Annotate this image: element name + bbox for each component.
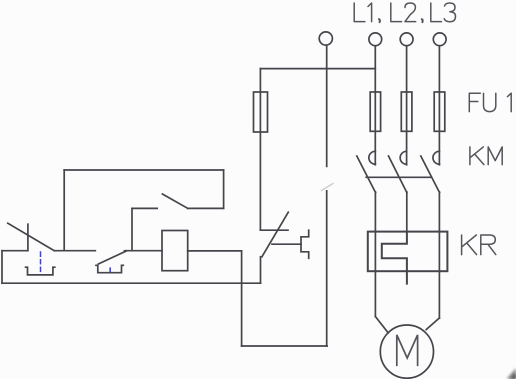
stop button SB1 blade [8, 223, 54, 251]
wire: rung segment 1 [2, 250, 28, 252]
wire: control tap upper segment [326, 45, 328, 166]
wire: KR trip contact to bottom rail [260, 257, 262, 283]
contactor KM pole 1 blade [357, 156, 376, 193]
start button SB2 cap [96, 265, 123, 272]
label KR [462, 235, 477, 255]
motor M circle [380, 325, 433, 378]
wire: right riser down [241, 251, 243, 346]
thermal relay KR box [368, 232, 448, 272]
thermal relay KR heater element (pole 2 detour) [382, 232, 407, 284]
wire: L1 to control fuse [260, 68, 375, 70]
wire: rung segment 2 [55, 250, 96, 252]
KR trip contact fixed bar [260, 229, 288, 231]
wire: rung segment 3 [125, 250, 163, 252]
wire: pole 1 through KR box [374, 232, 376, 317]
label L1.L2.L3 [354, 3, 365, 22]
contactor KM linkage bar [366, 176, 431, 178]
start button SB2 blade [98, 251, 126, 264]
scan artifact: dark corner smudge [507, 368, 516, 379]
KR trip actuator hook [301, 230, 309, 258]
wire: pole 3 through KR box [438, 232, 440, 318]
KR trip actuator link [272, 243, 301, 245]
fuse FU1 pole 1 [370, 92, 380, 131]
wire: left edge [1, 251, 3, 284]
stop button SB1 cap [26, 267, 55, 275]
start button SB2 plunger link [109, 268, 111, 271]
contactor KM pole 2 blade [389, 156, 407, 193]
contactor KM pole 1 fixed contact arc [369, 151, 375, 164]
label FU1 [469, 93, 480, 111]
contactor coil KM [162, 231, 188, 271]
wire: control branch drop through FU2 [259, 69, 261, 231]
wire: lower rail (left) [2, 282, 261, 284]
label KM [470, 147, 484, 165]
KM auxiliary contact left lead [132, 207, 157, 209]
wire: pole 3 to KR box [438, 192, 440, 232]
fuse FU1 pole 3 [434, 92, 445, 131]
terminal circle L1 [369, 33, 382, 46]
wire: aux branch top [64, 169, 223, 171]
motor letter M [397, 335, 418, 365]
wire: L2 phase drop [406, 46, 408, 165]
wire: aux branch right riser [223, 170, 225, 208]
wire: L3 phase drop [438, 46, 440, 165]
wire: control tap lower segment [326, 191, 328, 346]
contactor KM pole 2 fixed contact arc [400, 151, 406, 164]
faint blade remnant at control tap contact gap [322, 184, 334, 191]
stop button SB1 plunger link [40, 252, 42, 274]
fuse FU1 pole 2 [401, 92, 412, 131]
stop button SB1 terminal tick [27, 224, 29, 251]
wire: aux branch left riser [63, 170, 65, 251]
wire: L1 phase drop [374, 46, 376, 165]
terminal circle T0 (control tap) [319, 32, 332, 45]
KM auxiliary contact right lead [188, 207, 224, 209]
wire: pole 1 feed to motor [375, 317, 388, 333]
terminal circle L3 [433, 33, 446, 46]
fuse FU2 (control circuit) [254, 92, 268, 132]
wire: pole 1 to KR box [374, 192, 376, 232]
wire: coil to right riser [188, 250, 242, 252]
wire: pole 2 to KR box [406, 192, 408, 232]
wire: pole 3 feed to motor [426, 318, 439, 330]
wire: lower rail (right) [242, 345, 328, 347]
terminal circle L2 [400, 33, 413, 46]
KM auxiliary contact blade [162, 194, 187, 208]
wire: start button right terminal junction [131, 208, 133, 250]
KR trip contact blade [262, 212, 288, 257]
contactor KM pole 3 fixed contact arc [433, 151, 439, 164]
contactor KM pole 3 blade [421, 156, 440, 193]
